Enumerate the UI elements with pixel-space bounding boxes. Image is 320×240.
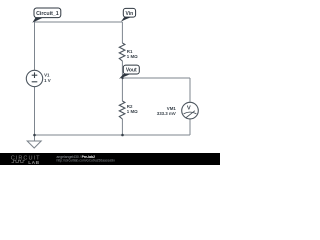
svg-text:1 MΩ: 1 MΩ — [127, 109, 138, 114]
svg-text:R1: R1 — [127, 49, 133, 54]
svg-text:LAB: LAB — [28, 160, 39, 165]
svg-text:http://circuitlab.com/c/cu9uz5: http://circuitlab.com/c/cu9uz56aacea9x — [57, 159, 116, 163]
svg-text:333.3 mV: 333.3 mV — [157, 111, 176, 116]
svg-text:V: V — [187, 106, 191, 112]
svg-text:V1: V1 — [44, 73, 50, 78]
svg-text:1 MΩ: 1 MΩ — [127, 54, 138, 59]
svg-text:R2: R2 — [127, 104, 133, 109]
svg-text:1 V: 1 V — [44, 78, 51, 83]
svg-text:Vout: Vout — [126, 68, 137, 74]
svg-text:Vin: Vin — [126, 11, 134, 17]
svg-text:Circuit_1: Circuit_1 — [36, 11, 59, 17]
